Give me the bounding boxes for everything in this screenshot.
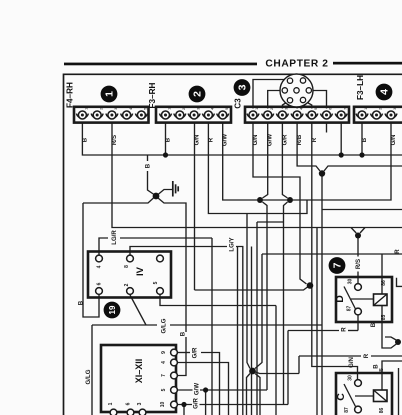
svg-text:86: 86 — [381, 280, 387, 286]
svg-text:7: 7 — [161, 374, 167, 377]
svg-text:F3–LH: F3–LH — [356, 75, 365, 100]
svg-text:R: R — [208, 137, 215, 142]
svg-text:2: 2 — [192, 91, 204, 97]
svg-text:B: B — [361, 137, 368, 142]
svg-text:IV: IV — [135, 266, 146, 276]
svg-text:1: 1 — [104, 91, 116, 97]
svg-text:19: 19 — [108, 305, 117, 314]
svg-text:5: 5 — [153, 281, 159, 284]
svg-text:1: 1 — [364, 108, 368, 110]
svg-text:87: 87 — [347, 306, 353, 312]
svg-text:F4–RH: F4–RH — [66, 82, 75, 108]
svg-text:G/R: G/R — [282, 134, 289, 145]
svg-text:R/S: R/S — [355, 259, 362, 269]
svg-text:R: R — [394, 249, 401, 254]
svg-text:2: 2 — [182, 108, 186, 110]
svg-text:B: B — [78, 300, 85, 305]
svg-text:5: 5 — [225, 108, 229, 110]
svg-text:R: R — [341, 327, 348, 332]
svg-text:LG/Y: LG/Y — [229, 237, 236, 251]
svg-text:B: B — [82, 137, 89, 142]
svg-text:3: 3 — [114, 108, 118, 110]
svg-text:3: 3 — [137, 402, 143, 405]
svg-text:9: 9 — [161, 351, 167, 354]
svg-text:30: 30 — [348, 375, 354, 381]
svg-text:C3: C3 — [234, 98, 243, 109]
svg-text:1: 1 — [108, 402, 114, 405]
svg-text:85: 85 — [381, 315, 387, 321]
svg-text:8: 8 — [124, 265, 130, 268]
svg-text:G/N: G/N — [194, 135, 201, 146]
svg-text:G/W: G/W — [222, 134, 229, 146]
svg-text:B: B — [145, 163, 152, 168]
svg-text:R/S: R/S — [111, 135, 118, 145]
svg-text:C: C — [335, 393, 347, 401]
svg-text:B: B — [373, 364, 380, 369]
svg-text:4: 4 — [379, 89, 391, 95]
svg-text:G/N: G/N — [348, 357, 355, 368]
svg-text:7: 7 — [332, 262, 344, 268]
svg-text:B: B — [370, 322, 377, 327]
svg-text:R/B: R/B — [296, 134, 303, 145]
svg-text:2: 2 — [379, 108, 383, 110]
svg-text:2: 2 — [270, 108, 274, 110]
svg-text:F3–RH: F3–RH — [148, 82, 157, 108]
svg-text:G/R: G/R — [193, 397, 200, 408]
svg-text:CHAPTER 2: CHAPTER 2 — [265, 59, 328, 70]
svg-text:4: 4 — [129, 108, 133, 110]
svg-text:4: 4 — [97, 265, 103, 268]
svg-text:86: 86 — [379, 408, 385, 414]
svg-text:G/W: G/W — [194, 383, 201, 395]
svg-text:D: D — [334, 295, 346, 303]
svg-text:3: 3 — [196, 108, 200, 110]
svg-text:5: 5 — [314, 108, 318, 110]
svg-text:G/N: G/N — [390, 135, 397, 146]
svg-text:6: 6 — [329, 108, 333, 110]
svg-text:G/R: G/R — [192, 347, 199, 358]
svg-text:6: 6 — [126, 402, 132, 405]
svg-text:G/W: G/W — [267, 134, 274, 146]
svg-text:3: 3 — [393, 108, 397, 110]
svg-text:87: 87 — [344, 407, 350, 413]
svg-text:3: 3 — [237, 84, 249, 90]
svg-text:4: 4 — [161, 361, 167, 364]
svg-text:R: R — [363, 353, 370, 358]
svg-text:R: R — [311, 137, 318, 142]
svg-text:1: 1 — [85, 108, 89, 110]
svg-text:5: 5 — [144, 108, 148, 110]
svg-text:1: 1 — [255, 108, 259, 110]
svg-text:LG/R: LG/R — [111, 230, 118, 245]
svg-text:5: 5 — [161, 388, 167, 391]
svg-text:G/LG: G/LG — [85, 369, 92, 384]
svg-text:2: 2 — [99, 108, 103, 110]
svg-text:XI–XII: XI–XII — [134, 359, 144, 384]
svg-text:B: B — [165, 137, 172, 142]
svg-text:7: 7 — [343, 108, 347, 110]
svg-text:4: 4 — [211, 108, 215, 110]
svg-text:G/N: G/N — [252, 135, 259, 146]
svg-text:1: 1 — [168, 108, 172, 110]
svg-text:4: 4 — [299, 108, 303, 110]
svg-text:10: 10 — [160, 402, 166, 408]
svg-text:85: 85 — [379, 368, 385, 374]
svg-text:G/LG: G/LG — [161, 318, 168, 333]
svg-text:3: 3 — [285, 108, 289, 110]
svg-text:30: 30 — [348, 279, 354, 285]
svg-text:2: 2 — [124, 283, 130, 286]
svg-text:B: B — [180, 331, 187, 336]
svg-text:6: 6 — [97, 282, 103, 285]
